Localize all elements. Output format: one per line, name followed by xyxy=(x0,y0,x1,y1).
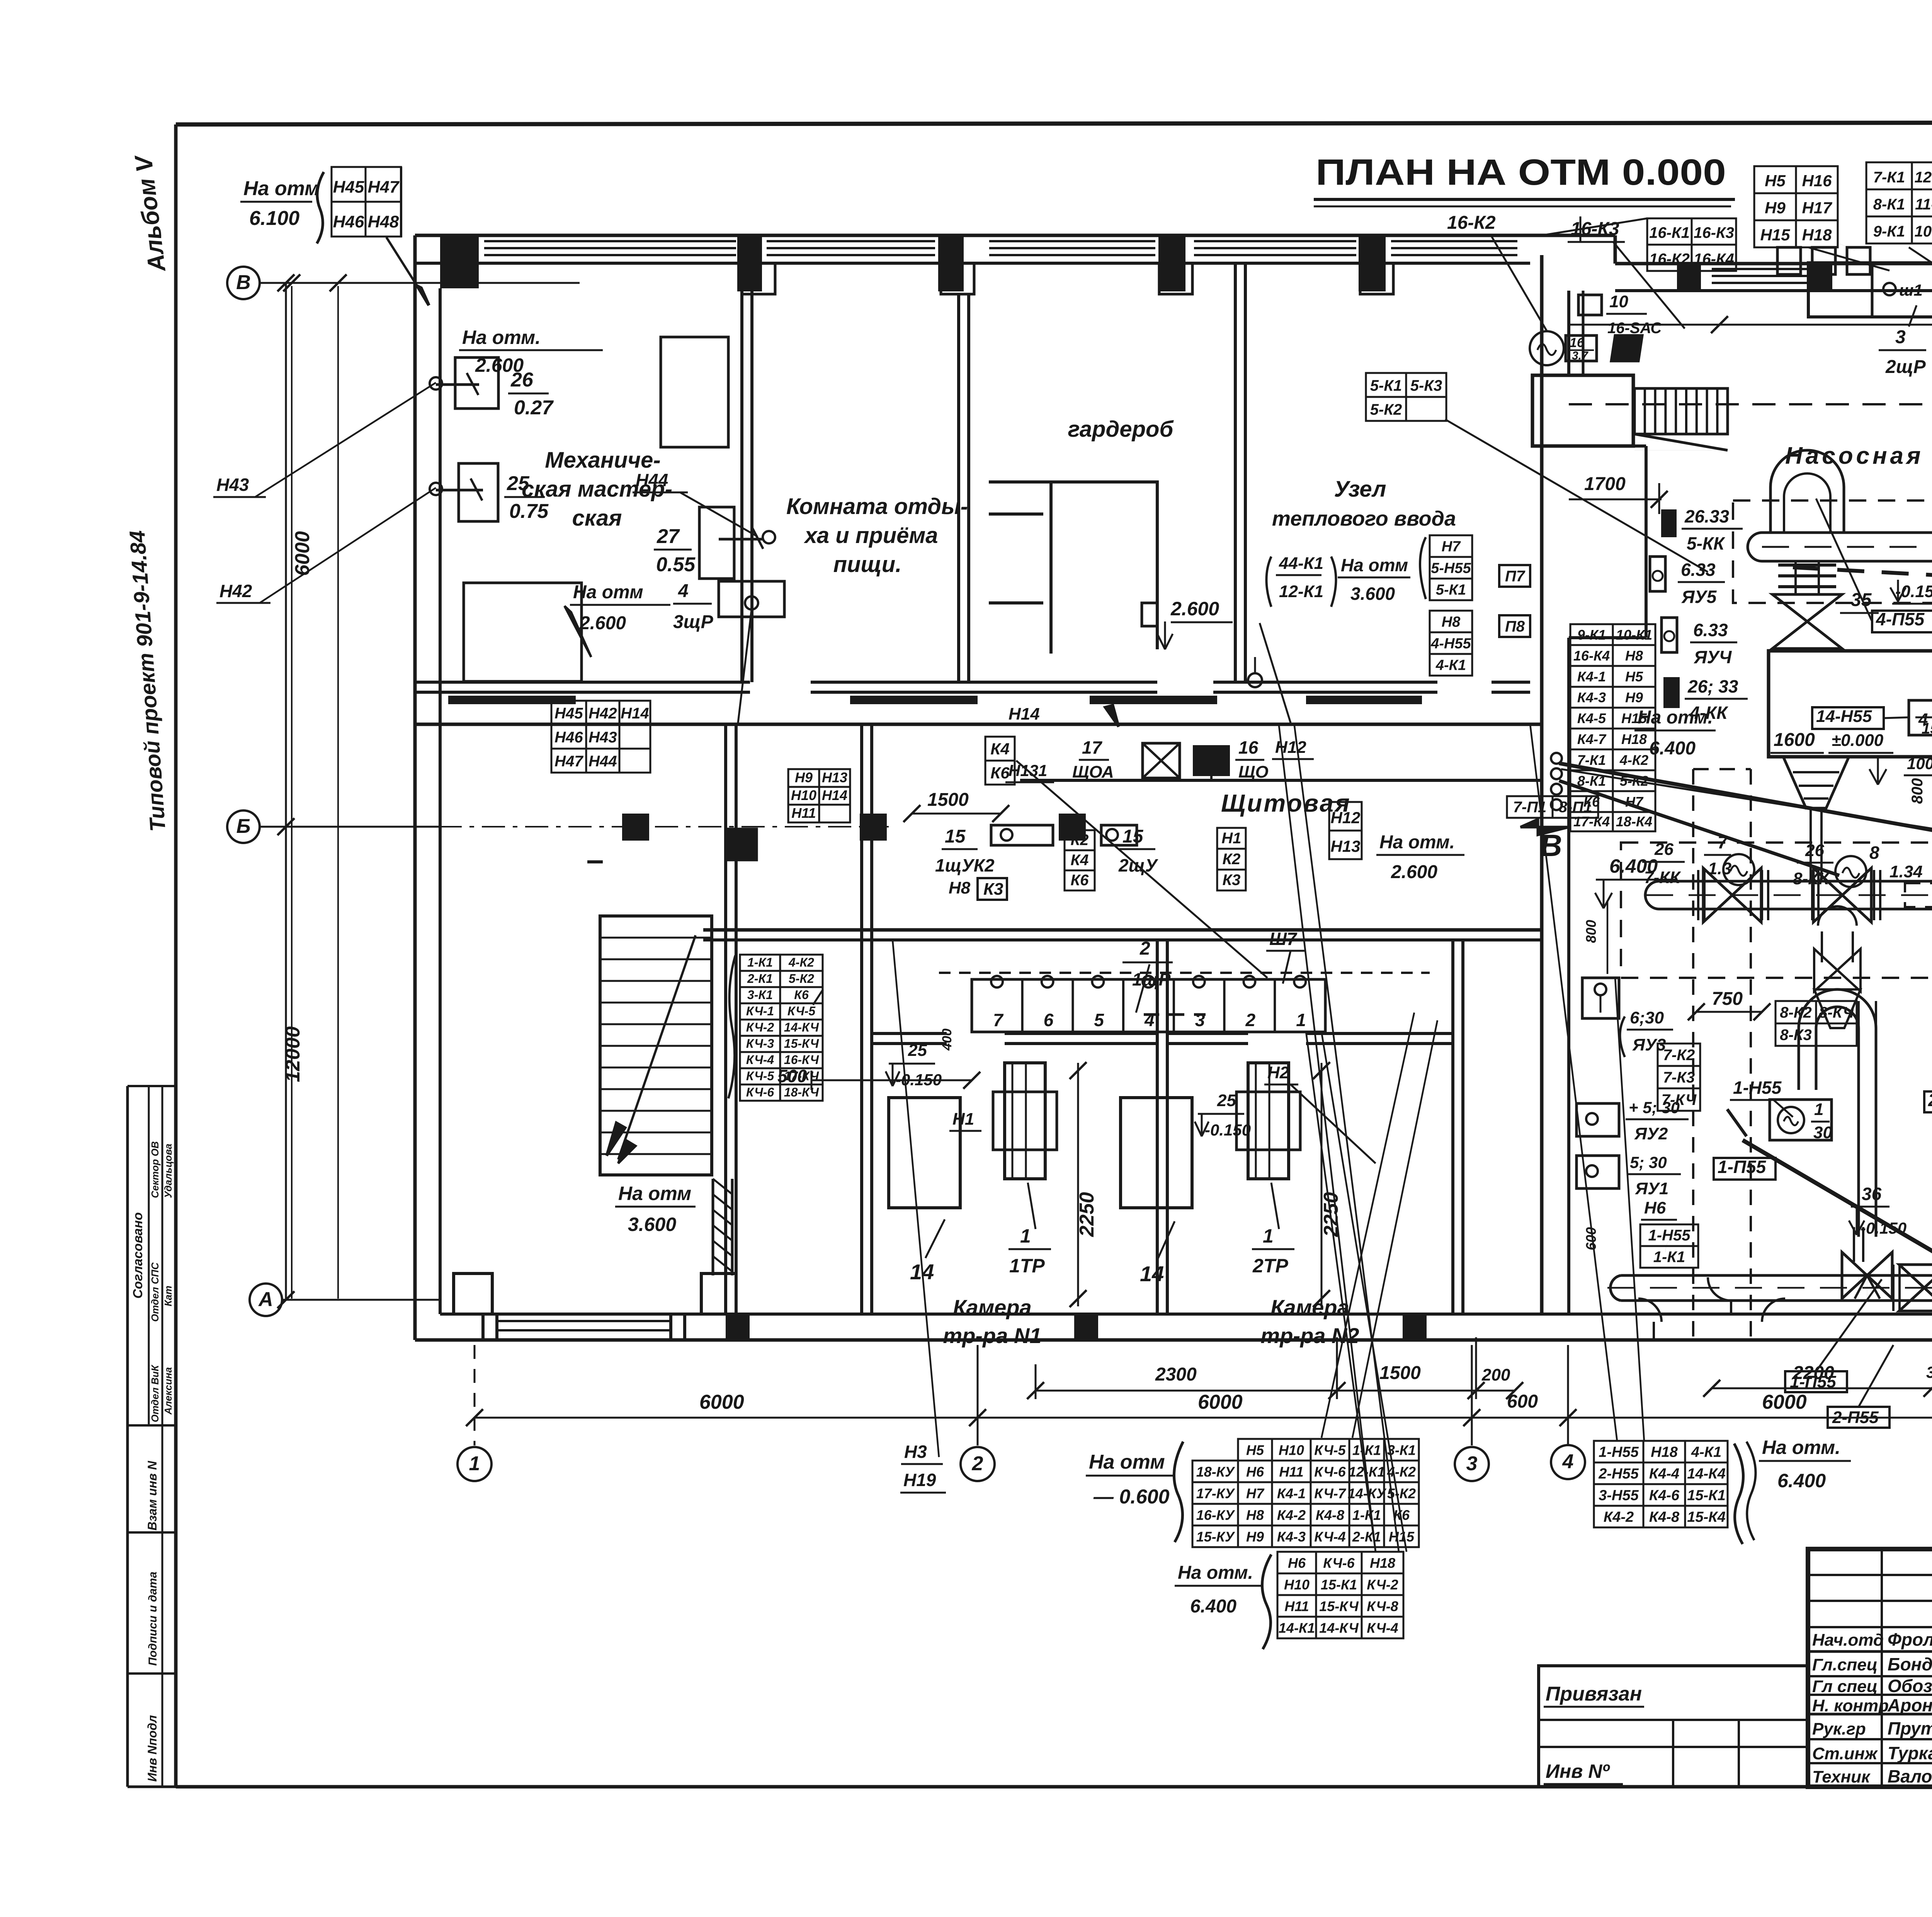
svg-text:КЧ-6: КЧ-6 xyxy=(1323,1555,1355,1571)
svg-text:6000: 6000 xyxy=(1762,1391,1807,1413)
svg-text:44-К1: 44-К1 xyxy=(1279,554,1323,573)
svg-text:КЧ-4: КЧ-4 xyxy=(746,1053,774,1067)
svg-text:16-К3: 16-К3 xyxy=(1694,224,1734,241)
svg-text:Нач.отд: Нач.отд xyxy=(1812,1631,1884,1650)
svg-text:Инв Nº: Инв Nº xyxy=(1546,1760,1610,1782)
svg-text:15-КЧ: 15-КЧ xyxy=(1319,1598,1359,1614)
svg-text:17-К4: 17-К4 xyxy=(1573,814,1610,829)
svg-text:15-К1: 15-К1 xyxy=(1687,1487,1725,1503)
svg-text:26.33: 26.33 xyxy=(1684,506,1730,526)
svg-text:25: 25 xyxy=(507,472,530,495)
svg-text:1-Н55: 1-Н55 xyxy=(1599,1444,1639,1460)
svg-text:К4-2: К4-2 xyxy=(1277,1507,1306,1523)
svg-text:3: 3 xyxy=(1466,1452,1478,1475)
svg-text:2-Н55: 2-Н55 xyxy=(1598,1466,1639,1482)
svg-text:На отм: На отм xyxy=(243,177,320,200)
svg-text:В: В xyxy=(236,271,251,294)
svg-text:15-К4: 15-К4 xyxy=(1687,1509,1725,1525)
svg-text:1: 1 xyxy=(469,1452,480,1475)
svg-text:Н10: Н10 xyxy=(1284,1577,1310,1592)
svg-text:800: 800 xyxy=(1909,778,1926,804)
svg-text:18-К4: 18-К4 xyxy=(1616,814,1652,829)
svg-text:Н42: Н42 xyxy=(588,705,617,722)
svg-text:ЯУ5: ЯУ5 xyxy=(1681,587,1717,607)
svg-text:Н7: Н7 xyxy=(1442,538,1461,555)
svg-text:18-КУ: 18-КУ xyxy=(1196,1464,1235,1479)
svg-text:К4-2: К4-2 xyxy=(1604,1509,1634,1525)
svg-text:2.600: 2.600 xyxy=(1170,598,1219,620)
svg-text:Н45: Н45 xyxy=(333,178,364,197)
svg-text:25: 25 xyxy=(908,1041,927,1060)
svg-text:6.33: 6.33 xyxy=(1681,560,1716,580)
svg-text:2-К1: 2-К1 xyxy=(747,972,773,986)
svg-text:Алексина: Алексина xyxy=(162,1367,174,1415)
svg-text:14-КЧ: 14-КЧ xyxy=(784,1020,820,1034)
svg-text:ЯУ1: ЯУ1 xyxy=(1635,1179,1668,1198)
svg-text:3-Н55: 3-Н55 xyxy=(1599,1487,1639,1503)
svg-text:4: 4 xyxy=(1562,1451,1574,1473)
svg-text:1щР: 1щР xyxy=(1132,969,1171,989)
svg-text:КЧ-1: КЧ-1 xyxy=(746,1004,774,1018)
svg-text:Н10: Н10 xyxy=(791,787,816,803)
svg-text:4-К1: 4-К1 xyxy=(1435,657,1466,673)
svg-text:1.34: 1.34 xyxy=(1889,862,1923,881)
svg-text:6;30: 6;30 xyxy=(1630,1008,1664,1027)
svg-text:200: 200 xyxy=(1481,1365,1510,1384)
svg-text:2: 2 xyxy=(972,1452,983,1475)
svg-text:6.400: 6.400 xyxy=(1777,1470,1826,1491)
svg-text:15: 15 xyxy=(1122,826,1144,847)
svg-text:Н48: Н48 xyxy=(368,213,399,232)
svg-text:Н45: Н45 xyxy=(554,705,583,722)
svg-text:ЯУЧ: ЯУЧ xyxy=(1694,647,1732,667)
svg-text:5-К2: 5-К2 xyxy=(1387,1485,1416,1501)
svg-text:5: 5 xyxy=(1094,1010,1104,1030)
svg-text:На отм.: На отм. xyxy=(1762,1437,1840,1458)
svg-text:7: 7 xyxy=(993,1010,1004,1030)
svg-text:Н6: Н6 xyxy=(1644,1199,1666,1217)
svg-text:7-К1: 7-К1 xyxy=(1873,169,1905,186)
svg-text:100: 100 xyxy=(1907,754,1932,773)
svg-text:Н8: Н8 xyxy=(1246,1507,1264,1523)
svg-text:Н3: Н3 xyxy=(904,1442,927,1462)
svg-text:Н1: Н1 xyxy=(1221,830,1241,847)
svg-text:Взам инв N: Взам инв N xyxy=(145,1461,159,1531)
svg-text:КЧ-5: КЧ-5 xyxy=(746,1069,775,1083)
svg-text:Н5: Н5 xyxy=(1765,172,1786,190)
svg-text:К6: К6 xyxy=(1071,872,1089,889)
svg-text:1600: 1600 xyxy=(1774,730,1815,750)
svg-text:Туркат: Туркат xyxy=(1888,1743,1932,1763)
svg-text:Н14: Н14 xyxy=(621,705,649,722)
svg-text:6.33: 6.33 xyxy=(1693,620,1728,640)
svg-text:Н6: Н6 xyxy=(1288,1555,1306,1571)
svg-text:К4-6: К4-6 xyxy=(1649,1487,1680,1503)
svg-text:26: 26 xyxy=(1805,841,1824,860)
svg-text:5-К2: 5-К2 xyxy=(789,972,814,986)
svg-text:Н13: Н13 xyxy=(822,770,847,785)
svg-text:Н2: Н2 xyxy=(1267,1063,1289,1082)
svg-text:К6: К6 xyxy=(990,764,1010,782)
svg-text:16-SАС: 16-SАС xyxy=(1607,320,1662,337)
svg-text:1: 1 xyxy=(1814,1100,1823,1119)
svg-text:4: 4 xyxy=(678,581,689,601)
svg-text:Н46: Н46 xyxy=(333,213,364,232)
svg-text:К6: К6 xyxy=(794,988,809,1002)
svg-text:1-П55: 1-П55 xyxy=(1718,1157,1767,1177)
svg-text:Н47: Н47 xyxy=(554,753,583,770)
svg-text:теплового ввода: теплового ввода xyxy=(1272,507,1456,530)
svg-text:Н18: Н18 xyxy=(1370,1555,1395,1571)
svg-text:0.27: 0.27 xyxy=(514,397,554,419)
svg-text:3.600: 3.600 xyxy=(628,1214,676,1235)
svg-text:-0.150: -0.150 xyxy=(896,1071,942,1089)
svg-text:6000: 6000 xyxy=(699,1391,744,1413)
svg-text:15: 15 xyxy=(945,826,966,847)
svg-text:2-П55: 2-П55 xyxy=(1928,1090,1932,1110)
svg-text:Н19: Н19 xyxy=(903,1470,936,1490)
svg-text:300: 300 xyxy=(1926,1363,1932,1381)
svg-text:8-П1: 8-П1 xyxy=(1559,798,1592,815)
svg-text:Н12: Н12 xyxy=(1330,809,1360,827)
svg-text:12-К1: 12-К1 xyxy=(1349,1464,1385,1479)
svg-text:14-К1: 14-К1 xyxy=(1279,1620,1315,1636)
svg-text:Н44: Н44 xyxy=(588,753,617,770)
svg-text:18-КЧ: 18-КЧ xyxy=(784,1085,820,1099)
svg-text:ха и приёма: ха и приёма xyxy=(803,523,938,548)
svg-text:ПЛАН НА ОТМ 0.000: ПЛАН НА ОТМ 0.000 xyxy=(1316,152,1726,193)
svg-text:— 0.600: — 0.600 xyxy=(1093,1486,1170,1508)
svg-text:4-Н55: 4-Н55 xyxy=(1430,635,1471,652)
svg-text:П7: П7 xyxy=(1505,568,1526,585)
svg-text:2.600: 2.600 xyxy=(475,354,524,376)
svg-text:ЩОА: ЩОА xyxy=(1072,763,1114,781)
svg-text:КЧ-6: КЧ-6 xyxy=(746,1085,774,1099)
svg-text:6000: 6000 xyxy=(291,531,314,576)
svg-text:Ст.инж: Ст.инж xyxy=(1812,1744,1878,1763)
svg-text:1-Н55: 1-Н55 xyxy=(1733,1078,1782,1098)
svg-text:0.55: 0.55 xyxy=(656,553,696,576)
svg-text:2250: 2250 xyxy=(1076,1192,1098,1237)
svg-text:1-К1: 1-К1 xyxy=(747,955,773,969)
svg-text:Н9: Н9 xyxy=(1765,199,1786,217)
svg-text:15-КУ: 15-КУ xyxy=(1196,1529,1235,1544)
svg-text:Удальцова: Удальцова xyxy=(162,1144,174,1198)
svg-text:5-К3: 5-К3 xyxy=(1410,377,1442,394)
svg-text:На отм: На отм xyxy=(1089,1451,1165,1473)
svg-text:Привязан: Привязан xyxy=(1546,1683,1642,1705)
svg-text:Н12: Н12 xyxy=(1275,738,1306,757)
svg-text:Согласовано: Согласовано xyxy=(131,1212,145,1299)
svg-text:К4-8: К4-8 xyxy=(1316,1507,1344,1523)
svg-text:Н18: Н18 xyxy=(1621,731,1647,747)
svg-text:Техник: Техник xyxy=(1812,1767,1871,1786)
svg-text:1-К1: 1-К1 xyxy=(1653,1248,1685,1265)
svg-text:1-Н55: 1-Н55 xyxy=(1648,1227,1691,1244)
svg-text:6.400: 6.400 xyxy=(1190,1596,1236,1617)
svg-text:Н6: Н6 xyxy=(1246,1464,1264,1479)
svg-text:5-К1: 5-К1 xyxy=(1436,582,1466,598)
svg-text:гардероб: гардероб xyxy=(1068,417,1174,442)
svg-text:12-К1: 12-К1 xyxy=(1915,169,1932,186)
svg-text:16: 16 xyxy=(1570,335,1585,350)
svg-text:4-К1: 4-К1 xyxy=(1691,1444,1721,1460)
svg-text:КЧ-5: КЧ-5 xyxy=(1314,1442,1346,1458)
svg-text:Инв Nподл: Инв Nподл xyxy=(145,1715,159,1782)
svg-text:16: 16 xyxy=(1238,737,1259,758)
svg-text:Н43: Н43 xyxy=(216,475,249,495)
svg-text:2.600: 2.600 xyxy=(1391,862,1437,882)
svg-text:Н11: Н11 xyxy=(791,805,816,821)
svg-text:тр-ра N1: тр-ра N1 xyxy=(943,1323,1041,1348)
svg-text:8: 8 xyxy=(1869,843,1879,863)
svg-text:Н16: Н16 xyxy=(1802,172,1832,190)
svg-text:К4-1: К4-1 xyxy=(1277,1485,1306,1501)
svg-text:8-К3: 8-К3 xyxy=(1780,1027,1811,1044)
svg-text:К4: К4 xyxy=(1071,851,1089,868)
svg-text:16-К4: 16-К4 xyxy=(1573,648,1610,664)
svg-text:К4-8: К4-8 xyxy=(1649,1509,1680,1525)
svg-text:16-КЧ: 16-КЧ xyxy=(784,1053,820,1067)
svg-text:Н8: Н8 xyxy=(1442,614,1461,630)
svg-text:400: 400 xyxy=(940,1028,954,1051)
svg-text:4-КК: 4-КК xyxy=(1689,703,1728,723)
svg-text:Гл.спец: Гл.спец xyxy=(1812,1655,1878,1674)
svg-text:К3: К3 xyxy=(983,880,1003,899)
svg-text:Н42: Н42 xyxy=(219,581,252,601)
svg-text:На отм.: На отм. xyxy=(462,327,541,348)
svg-text:2: 2 xyxy=(1245,1010,1256,1030)
svg-text:Б: Б xyxy=(236,815,251,838)
svg-text:А: А xyxy=(258,1288,273,1311)
svg-text:Валова: Валова xyxy=(1888,1766,1932,1786)
svg-text:14-Н55: 14-Н55 xyxy=(1816,707,1872,726)
svg-text:Н14: Н14 xyxy=(822,787,847,803)
svg-text:2-К1: 2-К1 xyxy=(1352,1529,1381,1544)
svg-text:Н1: Н1 xyxy=(952,1110,974,1129)
svg-text:1: 1 xyxy=(1020,1225,1031,1247)
svg-text:1500: 1500 xyxy=(1379,1363,1421,1383)
svg-text:10-К1: 10-К1 xyxy=(1616,627,1652,643)
svg-text:12000: 12000 xyxy=(282,1026,304,1082)
svg-text:К4-4: К4-4 xyxy=(1649,1466,1679,1482)
svg-text:пищи.: пищи. xyxy=(833,552,902,577)
svg-text:К4-5: К4-5 xyxy=(1577,710,1606,726)
svg-text:15-КЧ: 15-КЧ xyxy=(784,1037,820,1050)
svg-text:Насосная станция: Насосная станция xyxy=(1785,443,1932,469)
svg-text:15: 15 xyxy=(1922,720,1932,737)
svg-text:Н5: Н5 xyxy=(1625,669,1643,684)
svg-text:КЧ-4: КЧ-4 xyxy=(1367,1620,1398,1636)
svg-text:Н14: Н14 xyxy=(1009,705,1040,724)
svg-text:2: 2 xyxy=(1139,938,1150,959)
svg-text:Фролов: Фролов xyxy=(1888,1629,1932,1650)
svg-text:1-К1: 1-К1 xyxy=(1352,1442,1381,1458)
svg-text:7-К2: 7-К2 xyxy=(1663,1047,1695,1064)
svg-text:Механиче-: Механиче- xyxy=(545,448,660,473)
svg-text:30: 30 xyxy=(1813,1123,1832,1142)
svg-text:На отм.: На отм. xyxy=(1379,832,1455,853)
svg-text:1-П55: 1-П55 xyxy=(1790,1372,1836,1391)
svg-text:800: 800 xyxy=(1583,920,1599,943)
svg-text:Подписи и дата: Подписи и дата xyxy=(146,1571,159,1666)
svg-text:1щУК2: 1щУК2 xyxy=(935,855,995,875)
svg-text:Н17: Н17 xyxy=(1802,199,1832,217)
svg-text:КЧ-6: КЧ-6 xyxy=(1314,1464,1346,1479)
svg-text:К4: К4 xyxy=(990,740,1009,758)
svg-text:5-К1: 5-К1 xyxy=(1370,377,1402,394)
svg-text:9-К1: 9-К1 xyxy=(1873,223,1905,240)
svg-text:Н9: Н9 xyxy=(1246,1529,1264,1544)
svg-text:К4-3: К4-3 xyxy=(1577,690,1606,705)
svg-text:0.75: 0.75 xyxy=(509,500,549,523)
svg-text:14: 14 xyxy=(1140,1262,1164,1286)
svg-text:Узел: Узел xyxy=(1334,477,1386,502)
svg-text:17-КЧ: 17-КЧ xyxy=(784,1069,820,1083)
svg-text:Н43: Н43 xyxy=(588,729,617,746)
svg-text:2щР: 2щР xyxy=(1885,357,1926,377)
svg-text:17-КУ: 17-КУ xyxy=(1196,1485,1235,1501)
svg-text:К2: К2 xyxy=(1223,851,1241,868)
svg-text:16-КУ: 16-КУ xyxy=(1196,1507,1235,1523)
svg-text:1: 1 xyxy=(1296,1010,1306,1030)
svg-text:15-К1: 15-К1 xyxy=(1321,1577,1357,1592)
svg-text:К4-1: К4-1 xyxy=(1577,669,1606,684)
svg-text:Н18: Н18 xyxy=(1651,1444,1678,1460)
svg-text:КЧ-8: КЧ-8 xyxy=(1367,1598,1398,1614)
svg-text:На отм: На отм xyxy=(1341,555,1408,575)
svg-text:На отм: На отм xyxy=(618,1183,691,1204)
svg-text:25: 25 xyxy=(1217,1091,1236,1110)
svg-text:КЧ-4: КЧ-4 xyxy=(1314,1529,1345,1544)
svg-text:2300: 2300 xyxy=(1155,1364,1197,1385)
svg-text:8-К2: 8-К2 xyxy=(1780,1004,1811,1021)
svg-text:Н47: Н47 xyxy=(368,178,400,197)
svg-text:3-К1: 3-К1 xyxy=(747,988,773,1002)
svg-text:Камера: Камера xyxy=(953,1295,1032,1319)
svg-text:5-КК: 5-КК xyxy=(1687,533,1725,553)
svg-text:Камера: Камера xyxy=(1270,1295,1349,1319)
svg-text:Н. контр: Н. контр xyxy=(1812,1696,1889,1715)
svg-text:36: 36 xyxy=(1862,1184,1882,1204)
svg-text:10: 10 xyxy=(1609,292,1628,311)
svg-text:5-К2: 5-К2 xyxy=(1370,401,1402,418)
svg-text:5; 30: 5; 30 xyxy=(1630,1153,1667,1171)
svg-text:Н11: Н11 xyxy=(1284,1598,1309,1614)
svg-text:Рук.гр: Рук.гр xyxy=(1812,1720,1866,1738)
svg-text:На отм: На отм xyxy=(573,582,643,603)
svg-text:Н18: Н18 xyxy=(1802,226,1832,244)
svg-text:6.100: 6.100 xyxy=(249,207,299,230)
svg-text:П8: П8 xyxy=(1505,618,1525,635)
svg-text:16-К2: 16-К2 xyxy=(1447,213,1496,233)
svg-text:16-К1: 16-К1 xyxy=(1649,224,1690,241)
svg-text:Н5: Н5 xyxy=(1246,1442,1264,1458)
svg-text:Н15: Н15 xyxy=(1389,1529,1415,1544)
svg-text:6: 6 xyxy=(1044,1010,1054,1030)
svg-text:1ТР: 1ТР xyxy=(1009,1255,1045,1277)
svg-text:Обозная: Обозная xyxy=(1888,1676,1932,1696)
svg-text:-0.150: -0.150 xyxy=(1205,1121,1251,1139)
svg-text:Комната отды-: Комната отды- xyxy=(786,494,968,519)
svg-text:ЯУ2: ЯУ2 xyxy=(1634,1124,1668,1143)
svg-text:Н13: Н13 xyxy=(1330,837,1360,855)
svg-text:3.7: 3.7 xyxy=(1572,349,1588,362)
svg-text:7-К3: 7-К3 xyxy=(1663,1069,1695,1086)
svg-text:9-К1: 9-К1 xyxy=(1577,627,1606,643)
svg-text:ЩО: ЩО xyxy=(1238,763,1269,781)
svg-text:1500: 1500 xyxy=(927,790,969,810)
svg-text:14-К4: 14-К4 xyxy=(1687,1466,1725,1482)
svg-text:3: 3 xyxy=(1195,1010,1205,1030)
svg-text:Н10: Н10 xyxy=(1279,1442,1304,1458)
svg-text:Н44: Н44 xyxy=(636,470,668,490)
svg-text:Н9: Н9 xyxy=(795,770,813,785)
svg-text:Н8: Н8 xyxy=(1625,648,1643,664)
svg-text:К4-7: К4-7 xyxy=(1577,731,1607,747)
svg-text:16-К4: 16-К4 xyxy=(1694,250,1734,267)
svg-text:Кат: Кат xyxy=(162,1285,174,1306)
svg-text:4-К2: 4-К2 xyxy=(788,955,814,969)
svg-text:ская: ская xyxy=(572,506,622,531)
svg-text:К3: К3 xyxy=(1223,872,1241,889)
svg-text:1: 1 xyxy=(1263,1225,1274,1247)
svg-text:4-К2: 4-К2 xyxy=(1619,752,1648,768)
svg-text:Сектор ОВ: Сектор ОВ xyxy=(149,1141,161,1198)
svg-text:2.600: 2.600 xyxy=(579,613,626,633)
svg-text:+ 5; 30: + 5; 30 xyxy=(1629,1098,1680,1117)
svg-text:КЧ-7: КЧ-7 xyxy=(1314,1485,1346,1501)
svg-text:11-К1: 11-К1 xyxy=(1915,196,1932,213)
svg-text:Отдел ВиК: Отдел ВиК xyxy=(149,1364,161,1422)
svg-text:3щР: 3щР xyxy=(673,612,714,632)
svg-text:Отдел СПС: Отдел СПС xyxy=(149,1262,161,1322)
svg-text:Пруткова: Пруткова xyxy=(1888,1718,1932,1738)
svg-text:ш1: ш1 xyxy=(1899,281,1923,299)
svg-text:На отм.: На отм. xyxy=(1178,1563,1253,1583)
svg-text:Н11: Н11 xyxy=(1279,1464,1303,1479)
svg-text:±0.000: ±0.000 xyxy=(1832,731,1884,750)
svg-text:1700: 1700 xyxy=(1584,474,1626,494)
svg-text:Н15: Н15 xyxy=(1760,226,1790,244)
svg-text:Ш7: Ш7 xyxy=(1269,929,1298,949)
svg-text:КЧ-2: КЧ-2 xyxy=(1367,1577,1398,1592)
svg-text:Н7: Н7 xyxy=(1246,1485,1265,1501)
svg-text:К4-3: К4-3 xyxy=(1277,1529,1306,1544)
svg-text:14-КЧ: 14-КЧ xyxy=(1319,1620,1359,1636)
svg-text:1-К1: 1-К1 xyxy=(1352,1507,1381,1523)
svg-text:12-К1: 12-К1 xyxy=(1279,582,1323,601)
svg-text:16-К2: 16-К2 xyxy=(1649,250,1690,267)
svg-text:17: 17 xyxy=(1082,737,1103,758)
svg-text:Аронсон: Аронсон xyxy=(1887,1695,1932,1715)
svg-text:8-К1: 8-К1 xyxy=(1873,196,1905,213)
svg-text:Бондарь: Бондарь xyxy=(1888,1654,1932,1674)
svg-text:Н8: Н8 xyxy=(949,878,971,897)
svg-text:6000: 6000 xyxy=(1198,1391,1243,1413)
svg-text:750: 750 xyxy=(1712,989,1743,1009)
svg-text:Н9: Н9 xyxy=(1625,690,1643,705)
svg-text:Гл спец: Гл спец xyxy=(1812,1677,1878,1696)
svg-text:КЧ-3: КЧ-3 xyxy=(746,1037,774,1050)
svg-text:Н15: Н15 xyxy=(1621,710,1647,726)
svg-text:Н46: Н46 xyxy=(554,729,583,746)
svg-text:3: 3 xyxy=(1895,327,1906,347)
svg-text:26; 33: 26; 33 xyxy=(1687,676,1738,696)
svg-text:4: 4 xyxy=(1144,1010,1155,1030)
svg-text:10-К1: 10-К1 xyxy=(1915,223,1932,240)
svg-text:4-П55: 4-П55 xyxy=(1876,609,1925,629)
